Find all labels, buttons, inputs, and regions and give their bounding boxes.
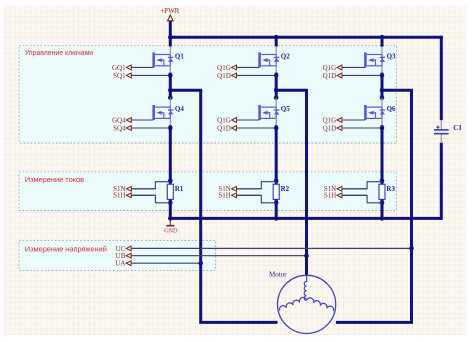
wire +PWR top bus — [170, 36, 443, 39]
power port +PWR — [160, 7, 179, 21]
port UB — [116, 252, 132, 260]
wire right bus down to C1 — [440, 36, 443, 121]
port Q1G (gate Q2) — [217, 64, 259, 72]
port SQ1 (source Q1) — [113, 72, 168, 80]
wire sense bracket R3 top (S1N) — [342, 182, 382, 189]
wire phase A output to motor — [201, 90, 278, 322]
svg-text:Motor: Motor — [269, 271, 287, 279]
svg-text:Q6: Q6 — [387, 105, 396, 113]
port S1N (sense R2) — [218, 185, 261, 193]
wire phase B jog to output column — [276, 90, 306, 92]
port S1H (sense R2) — [218, 192, 261, 200]
wire bus to Q1 drain — [169, 39, 172, 55]
svg-text:GND: GND — [164, 227, 178, 234]
node UB junction — [304, 253, 309, 258]
wire phase node to Q4 drain — [169, 98, 171, 108]
node UA junction — [198, 261, 203, 266]
node phase A lower — [168, 95, 173, 100]
svg-text:S1H: S1H — [218, 192, 230, 200]
node R2 bottom — [274, 201, 279, 206]
wire Q6 source to R3 — [381, 118, 383, 184]
wire R3 bottom to GND rail — [381, 199, 384, 218]
port Q1G (gate Q6) — [323, 116, 366, 124]
transistor Q6 (low side C) — [364, 105, 396, 120]
dashed region box: switch control (Управление ключами) — [19, 46, 396, 143]
port SQ4 (source Q4) — [113, 124, 168, 132]
svg-text:Измерение напряжений: Измерение напряжений — [25, 244, 107, 253]
wire UB sense — [131, 255, 307, 257]
svg-text:Q1G: Q1G — [217, 64, 231, 72]
title: Управление ключами — [25, 50, 94, 57]
ground GND — [164, 220, 178, 234]
port Q1D (source Q6) — [323, 124, 380, 132]
wire sense bracket R1 bottom (S1H) — [132, 195, 171, 203]
svg-text:GQ4: GQ4 — [112, 116, 126, 124]
port Q1G (gate Q3) — [323, 64, 366, 72]
transistor Q4 (low side A) — [152, 105, 184, 120]
svg-text:Q5: Q5 — [281, 105, 290, 113]
svg-text:R3: R3 — [386, 185, 395, 193]
node Q1 source / port row — [168, 73, 173, 78]
wire UC sense — [131, 247, 412, 249]
node phase B lower — [274, 95, 279, 100]
wire Q3 source to phase node C — [381, 66, 383, 98]
node Q3 source / port row — [380, 73, 385, 78]
node R2 top — [274, 178, 279, 183]
wire bus to Q2 drain — [275, 39, 278, 55]
svg-text:Q4: Q4 — [175, 105, 184, 113]
svg-text:Q1G: Q1G — [323, 64, 337, 72]
wire phase node to Q5 drain — [275, 98, 277, 108]
wire phase C output to motor — [336, 90, 412, 322]
svg-text:SQ4: SQ4 — [113, 124, 126, 132]
svg-text:UA: UA — [115, 260, 125, 268]
wire Q5 source to R2 — [275, 118, 277, 184]
port Q1G (gate Q5) — [217, 116, 259, 124]
port S1H (sense R3) — [324, 192, 367, 200]
transistor Q3 (high side C) — [364, 52, 396, 67]
svg-text:Измерение токов: Измерение токов — [25, 175, 84, 184]
node GND rail junction A — [168, 216, 173, 221]
transistor Q2 (high side B) — [258, 52, 290, 67]
node junction bus/B — [274, 35, 279, 40]
title: Измерение напряжений — [25, 244, 107, 253]
node phase A tee — [168, 88, 173, 93]
capacitor C1 (polarized) — [434, 120, 462, 143]
svg-text:Q3: Q3 — [387, 52, 396, 60]
svg-text:SQ1: SQ1 — [113, 72, 126, 80]
port UC — [116, 245, 132, 253]
dashed region box: voltage measurement (Измерение напряжений) — [19, 240, 216, 270]
svg-text:Q1G: Q1G — [323, 116, 337, 124]
wire sense bracket R2 top (S1N) — [237, 182, 276, 189]
wire UA sense — [131, 262, 201, 264]
svg-text:S1H: S1H — [324, 192, 336, 200]
port S1N (sense R3) — [324, 185, 367, 193]
resistor R2 (shunt) — [273, 184, 289, 199]
wire bus to Q3 drain — [381, 39, 384, 55]
resistor R1 (shunt) — [167, 184, 183, 199]
svg-text:Q1G: Q1G — [217, 116, 231, 124]
port UA — [115, 260, 131, 268]
node R3 bottom — [380, 201, 385, 206]
port S1H (sense R1) — [113, 192, 155, 200]
node R1 bottom — [168, 201, 173, 206]
node phase B tee — [274, 88, 279, 93]
svg-text:GQ1: GQ1 — [112, 64, 126, 72]
wire sense bracket R1 top (S1N) — [132, 182, 171, 189]
wire R2 bottom to GND rail — [275, 199, 278, 218]
title: Измерение токов — [25, 175, 84, 184]
dashed region box: current measurement (Измерение токов) — [19, 172, 396, 211]
node phase C tee — [380, 88, 385, 93]
svg-text:Q1D: Q1D — [323, 72, 337, 80]
svg-text:Q2: Q2 — [281, 52, 290, 60]
node R1 top — [168, 178, 173, 183]
svg-text:Q1D: Q1D — [323, 124, 337, 132]
node Q4 source / port row — [168, 126, 173, 131]
svg-text:Управление ключами: Управление ключами — [25, 50, 94, 57]
svg-text:Q1: Q1 — [175, 52, 184, 60]
svg-text:S1H: S1H — [113, 192, 125, 200]
wire R1 bottom to GND rail — [169, 199, 172, 218]
svg-text:R1: R1 — [175, 185, 184, 193]
wire sense bracket R3 bottom (S1H) — [342, 195, 382, 203]
svg-text:C1: C1 — [453, 124, 462, 132]
wire phase C jog to output column — [382, 90, 412, 92]
node GND rail junction B — [274, 216, 279, 221]
node GND rail junction C — [380, 216, 385, 221]
svg-text:R2: R2 — [281, 185, 290, 193]
port S1N (sense R1) — [113, 185, 155, 193]
motor M (3-phase star) — [269, 271, 336, 334]
transistor Q1 (high side A) — [152, 52, 184, 67]
port GQ4 (gate Q4) — [112, 116, 154, 124]
node Q6 source / port row — [380, 126, 385, 131]
wire C1 to GND rail — [440, 143, 443, 220]
wire phase B output to motor — [305, 90, 308, 275]
port Q1D (source Q2) — [217, 72, 274, 80]
node R3 top — [380, 178, 385, 183]
node junction bus/A — [168, 35, 173, 40]
wire Q4 source to R1 — [169, 118, 171, 184]
node Q5 source / port row — [274, 126, 279, 131]
svg-text:+PWR: +PWR — [160, 7, 179, 15]
port GQ1 (gate Q1) — [112, 64, 154, 72]
wire Q2 source to phase node B — [275, 66, 277, 98]
wire Q1 source to phase node A — [169, 66, 171, 98]
svg-text:Q1D: Q1D — [217, 72, 231, 80]
node UC junction — [409, 246, 414, 251]
wire phase A jog to output column — [170, 90, 200, 92]
wire +PWR stem — [169, 21, 172, 37]
wire sense bracket R2 bottom (S1H) — [237, 195, 276, 203]
resistor R3 (shunt) — [379, 184, 395, 199]
transistor Q5 (low side B) — [258, 105, 290, 120]
port Q1D (source Q3) — [323, 72, 380, 80]
svg-text:Q1D: Q1D — [217, 124, 231, 132]
wire GND rail — [170, 217, 441, 220]
port Q1D (source Q5) — [217, 124, 274, 132]
node phase C lower — [380, 95, 385, 100]
node junction bus/C — [380, 35, 385, 40]
node Q2 source / port row — [274, 73, 279, 78]
wire phase node to Q6 drain — [381, 98, 383, 108]
